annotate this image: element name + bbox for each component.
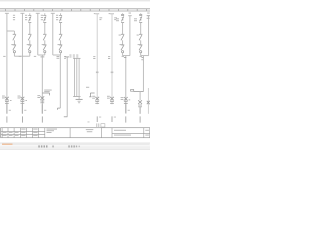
wire rail 3 upper xyxy=(37,13,39,55)
fuse Q3 xyxy=(43,13,46,34)
contact K2 xyxy=(28,34,31,45)
coil MA xyxy=(121,45,124,53)
label F5 xyxy=(92,96,95,99)
fuse QA xyxy=(121,13,124,34)
top border ruler line xyxy=(0,9,150,11)
overload F6 xyxy=(110,97,114,104)
wire feeder B xyxy=(142,56,144,92)
wire join 4 xyxy=(53,53,61,55)
terminal rail 1 bottom xyxy=(7,104,11,122)
label K3 xyxy=(42,43,44,46)
terminal labels row xyxy=(3,55,36,58)
overload F5 xyxy=(95,97,99,104)
branch tap wire 1 xyxy=(7,31,14,34)
overload FB xyxy=(138,100,142,107)
terminal label XB xyxy=(140,56,144,60)
label rail 1 xyxy=(13,15,15,20)
ruler tick marks xyxy=(6,9,147,11)
terminal rail 3 bottom xyxy=(42,104,46,122)
overload F2 xyxy=(21,97,25,104)
wire mark FA xyxy=(129,98,131,101)
terminal rail 2 bottom xyxy=(22,104,26,122)
node L1 terminal xyxy=(5,12,9,14)
label F6 xyxy=(107,96,110,99)
title block center cell text 2 xyxy=(86,129,94,132)
fuse QB top tick xyxy=(139,14,142,16)
wire mark F1 xyxy=(10,99,12,102)
wire join 3 xyxy=(38,53,45,55)
wire feeder 3 xyxy=(41,55,43,114)
status bar xyxy=(0,143,150,150)
terminal label X4 xyxy=(57,56,60,59)
label KB xyxy=(137,35,140,46)
wire feeder 4 xyxy=(59,55,61,108)
overload edge stub xyxy=(147,101,150,104)
node N5 terminal xyxy=(94,12,99,15)
coil M3 xyxy=(43,45,46,53)
fuse QB xyxy=(139,13,142,34)
terminal feeder A bottom xyxy=(126,104,130,122)
label K1 xyxy=(11,43,13,46)
title block row lines xyxy=(1,131,150,134)
status bar icons xyxy=(38,145,79,147)
wire page edge stub xyxy=(147,88,149,114)
label margin right edge xyxy=(147,15,150,18)
label F2 xyxy=(18,96,21,99)
cable tag 3 xyxy=(42,90,51,96)
label rail 2 xyxy=(25,15,27,20)
title block column lines xyxy=(2,128,144,138)
label rail 5 xyxy=(93,17,102,59)
wire feeder A xyxy=(122,56,127,114)
wire tag 6 xyxy=(111,72,114,74)
overload F3 xyxy=(40,96,44,103)
node L2 terminal xyxy=(20,12,24,14)
wire rail 5 xyxy=(96,14,98,104)
wire feeder B lower xyxy=(139,107,141,123)
wire rail A2 xyxy=(129,16,131,56)
fuse QA top tick xyxy=(121,14,124,16)
coil M1 xyxy=(13,45,16,53)
label F1 xyxy=(2,96,5,99)
wire branch B lower xyxy=(140,53,142,56)
wire rail 6 xyxy=(111,14,113,104)
coil M2 xyxy=(28,45,31,53)
contact KB xyxy=(139,34,142,45)
label margin B xyxy=(134,18,137,21)
cable tag B xyxy=(131,90,144,101)
terminal rail 5 bottom xyxy=(97,116,101,122)
cable label xyxy=(69,55,78,58)
terminal feeder 5 bottom xyxy=(64,116,68,118)
page reference marks xyxy=(88,122,105,128)
title block frame xyxy=(1,128,150,138)
label rail 6 xyxy=(108,17,117,59)
label margin A xyxy=(116,18,119,21)
overload F1 xyxy=(5,97,9,104)
node L3 terminal xyxy=(36,12,40,14)
branch join wire 2 xyxy=(22,53,29,56)
title block center cell text 1 xyxy=(47,129,58,133)
shield hook symbol xyxy=(86,87,95,97)
node N6 terminal xyxy=(109,12,114,15)
branch join wire 1 xyxy=(14,53,22,56)
cable conductor 3 xyxy=(78,58,81,96)
terminal node X3 xyxy=(41,56,45,58)
overload FA xyxy=(124,97,128,104)
wire rail 1 xyxy=(6,13,8,114)
wire feeder 5 xyxy=(65,57,69,117)
label K4 xyxy=(58,43,60,46)
contact K4 xyxy=(59,34,62,45)
label FA xyxy=(121,97,124,100)
label rail 3 xyxy=(41,15,43,20)
cable shield bar xyxy=(76,97,83,103)
label F3 xyxy=(37,95,40,98)
contact K3 xyxy=(43,34,46,45)
terminal rail 6 bottom xyxy=(112,116,116,122)
contact K1 xyxy=(13,34,16,45)
node L4 terminal xyxy=(51,12,55,14)
cable conductor 1 xyxy=(73,58,76,96)
wire rail 2 xyxy=(21,13,23,114)
wire join A xyxy=(123,55,130,57)
label KA xyxy=(119,35,122,46)
label rail 4 xyxy=(56,15,58,20)
wire branch A lower xyxy=(122,53,124,56)
wire rail B2 xyxy=(147,13,150,56)
wire join B xyxy=(141,55,149,57)
wire tag 5 xyxy=(96,72,99,74)
contact KA xyxy=(121,34,124,45)
title block left cells text xyxy=(2,129,38,136)
coil M4 xyxy=(59,45,62,53)
coil MB xyxy=(139,45,142,53)
status bar progress segment xyxy=(2,144,150,145)
fuse Q2 xyxy=(28,13,31,34)
title block right cells text xyxy=(114,130,149,136)
node A2 terminal xyxy=(128,13,132,16)
wire mark F2 xyxy=(25,99,27,102)
terminal label X5 xyxy=(64,56,66,59)
cable conductor 2 xyxy=(75,58,78,96)
fuse Q4 xyxy=(59,13,62,34)
wire end hook 4 xyxy=(58,108,61,110)
wire rail 4 upper xyxy=(52,13,54,55)
label K2 xyxy=(27,43,29,46)
window top edge xyxy=(0,0,150,1)
